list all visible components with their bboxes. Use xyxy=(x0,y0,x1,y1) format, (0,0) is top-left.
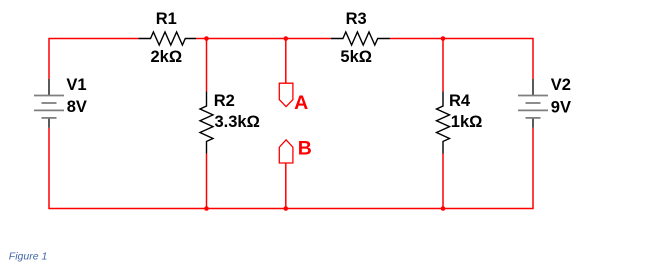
svg-text:B: B xyxy=(298,137,312,159)
svg-text:9V: 9V xyxy=(551,98,571,116)
svg-text:Figure 1: Figure 1 xyxy=(9,250,48,262)
svg-text:V2: V2 xyxy=(551,76,571,94)
svg-text:1kΩ: 1kΩ xyxy=(451,113,483,131)
svg-text:R2: R2 xyxy=(214,92,235,110)
svg-text:5kΩ: 5kΩ xyxy=(340,48,372,66)
svg-text:8V: 8V xyxy=(67,98,87,116)
svg-text:2kΩ: 2kΩ xyxy=(151,48,183,66)
svg-text:R3: R3 xyxy=(346,10,367,28)
svg-text:R4: R4 xyxy=(449,92,471,110)
svg-text:R1: R1 xyxy=(156,10,177,28)
svg-text:3.3kΩ: 3.3kΩ xyxy=(215,113,260,131)
svg-text:A: A xyxy=(294,92,308,114)
svg-text:V1: V1 xyxy=(66,76,86,94)
